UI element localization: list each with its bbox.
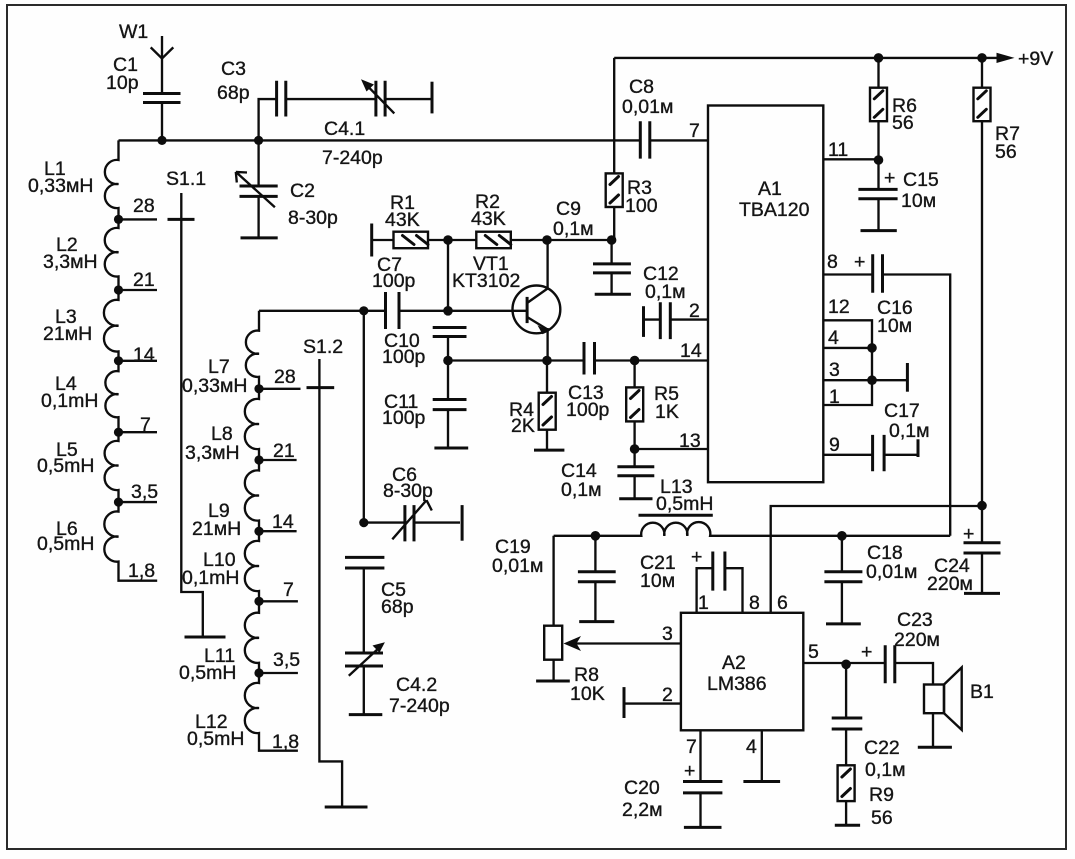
capacitor C16 (polarized) [824, 251, 951, 536]
svg-text:KT3102: KT3102 [452, 270, 520, 292]
svg-text:0,5mH: 0,5mH [179, 662, 236, 684]
svg-text:0,01м: 0,01м [622, 96, 673, 118]
svg-text:C9: C9 [556, 198, 581, 220]
tap 7 (L4/L5) [114, 414, 157, 437]
capacitor C5 [345, 557, 414, 653]
inductor chain L7-L12 [179, 311, 298, 751]
svg-text:0,5mH: 0,5mH [656, 493, 713, 515]
svg-text:9: 9 [829, 434, 840, 456]
svg-text:14: 14 [133, 344, 155, 366]
svg-text:C3: C3 [221, 58, 246, 80]
tap 28 (L1/L2) [114, 195, 157, 224]
svg-text:3: 3 [662, 623, 673, 645]
svg-text:7: 7 [140, 414, 151, 436]
capacitor C19 [492, 536, 616, 622]
svg-text:10м: 10м [877, 315, 912, 337]
svg-text:1,8: 1,8 [272, 731, 299, 753]
svg-text:8-30p: 8-30p [383, 480, 433, 502]
svg-text:1,8: 1,8 [128, 560, 155, 582]
capacitor C24 (polarized) [927, 523, 1001, 595]
capacitor C1 [106, 54, 181, 141]
svg-text:3,5: 3,5 [131, 481, 158, 503]
svg-text:0,01м: 0,01м [866, 561, 917, 583]
svg-text:43K: 43K [471, 208, 506, 230]
svg-text:3: 3 [829, 359, 840, 381]
svg-text:68p: 68p [217, 82, 250, 104]
transistor VT1 [452, 240, 560, 361]
svg-text:2,2м: 2,2м [622, 799, 663, 821]
svg-text:4: 4 [828, 327, 839, 349]
svg-text:0,1mH: 0,1mH [41, 390, 98, 412]
svg-text:21мН: 21мН [192, 518, 241, 540]
svg-text:4: 4 [746, 736, 757, 758]
svg-text:+: + [884, 167, 895, 189]
resistor R9 [835, 765, 894, 829]
antenna W1 [119, 21, 173, 93]
svg-text:0,5mH: 0,5mH [37, 533, 94, 555]
svg-text:0,5mH: 0,5mH [37, 455, 94, 477]
resistor R3 [606, 58, 658, 240]
svg-text:7: 7 [689, 120, 700, 142]
node C9/R3 junction [607, 235, 617, 245]
svg-text:28: 28 [274, 366, 296, 388]
svg-text:100: 100 [625, 195, 658, 217]
node collector junction [542, 235, 552, 245]
svg-text:C4.2: C4.2 [396, 674, 437, 696]
svg-text:100p: 100p [566, 399, 610, 421]
tap 28 (L7/L8) [254, 366, 300, 393]
wire pin 11 [824, 158, 879, 160]
wire base bias [447, 240, 449, 311]
node rail R7 [977, 53, 987, 63]
capacitor C21 (polarized) [640, 546, 743, 613]
inductor L13 [554, 476, 951, 536]
capacitor C9 [553, 198, 631, 294]
capacitor C23 (polarized) [861, 609, 940, 685]
svg-text:6: 6 [777, 592, 788, 614]
node antenna junction [157, 136, 166, 145]
wire tank2 top [259, 310, 385, 312]
capacitor C8 [622, 76, 708, 159]
svg-text:B1: B1 [970, 681, 994, 703]
svg-text:3,3мН: 3,3мН [43, 251, 98, 273]
svg-text:C8: C8 [629, 76, 654, 98]
tap 21 (L8/L9) [254, 440, 296, 465]
svg-text:0,1м: 0,1м [865, 759, 906, 781]
capacitor C7 [372, 254, 527, 329]
svg-text:C20: C20 [624, 777, 660, 799]
resistor R6 [870, 58, 917, 160]
resistor R4 [509, 361, 564, 451]
svg-text:100p: 100p [382, 346, 426, 368]
svg-text:10p: 10p [106, 72, 139, 94]
trimmer capacitor C2 [236, 140, 338, 238]
svg-text:0,1mH: 0,1mH [182, 567, 239, 589]
svg-text:C22: C22 [864, 737, 900, 759]
svg-text:56: 56 [995, 141, 1017, 163]
capacitor C15 (polarized) [858, 160, 939, 231]
node tank2 top [359, 306, 368, 315]
svg-text:7: 7 [283, 579, 294, 601]
pin 2 stub [624, 684, 681, 718]
svg-text:0,1м: 0,1м [561, 479, 602, 501]
wire pin 6 to R7 [771, 506, 982, 613]
potentiometer R8 [536, 536, 681, 705]
svg-text:56: 56 [892, 112, 914, 134]
svg-text:+: + [861, 641, 872, 663]
svg-text:12: 12 [828, 296, 850, 318]
capacitor C17 [824, 400, 930, 471]
tap 14 (L3/L4) [114, 344, 157, 366]
node C6/C5 junction [359, 518, 368, 527]
node C14 junction [630, 444, 640, 454]
capacitor C18 [824, 536, 917, 624]
resistor R2 [448, 191, 547, 248]
svg-text:13: 13 [679, 430, 701, 452]
svg-text:A1: A1 [758, 178, 782, 200]
svg-text:S1.1: S1.1 [166, 168, 206, 190]
svg-text:+: + [691, 546, 702, 568]
svg-text:10K: 10K [570, 683, 605, 705]
svg-text:2: 2 [662, 684, 673, 706]
wire pin13 [635, 448, 708, 450]
capacitor C14 [561, 449, 654, 501]
capacitor C12 [643, 263, 708, 339]
node tank1 junction [254, 136, 263, 145]
svg-text:68p: 68p [381, 596, 414, 618]
+9V rail [614, 48, 1053, 70]
node R5 top junction [630, 356, 640, 366]
svg-text:220м: 220м [927, 573, 973, 595]
svg-text:+: + [684, 760, 695, 782]
node pin5/C22 [841, 660, 851, 670]
svg-text:220м: 220м [894, 629, 940, 651]
svg-text:+: + [854, 251, 865, 273]
node R1/R2 junction [443, 235, 453, 245]
capacitor C13 [566, 342, 708, 421]
svg-text:56: 56 [871, 807, 893, 829]
svg-text:0,01м: 0,01м [492, 555, 543, 577]
variable capacitor C4.1 [286, 79, 432, 169]
svg-text:5: 5 [808, 641, 819, 663]
svg-text:LM386: LM386 [707, 673, 767, 695]
pin 4 stub [743, 730, 780, 781]
node C19 junction [591, 531, 601, 541]
svg-text:43K: 43K [385, 209, 420, 231]
tap 21 (L2/L3) [114, 269, 157, 295]
svg-text:S1.2: S1.2 [303, 336, 343, 358]
switch S1.1 [166, 168, 226, 637]
node emitter row left [443, 356, 453, 366]
wire bus A (tank1 top to C8) [119, 139, 641, 141]
node emitter junction [542, 356, 552, 366]
svg-text:+9V: +9V [1018, 48, 1053, 70]
svg-text:R9: R9 [869, 784, 894, 806]
node base junction [443, 306, 453, 316]
capacitor C11 [382, 361, 468, 449]
svg-text:1: 1 [829, 386, 840, 408]
svg-text:3,3мН: 3,3мН [185, 442, 240, 464]
node rail R6 [874, 53, 884, 63]
svg-text:7-240p: 7-240p [322, 147, 383, 169]
svg-text:28: 28 [133, 195, 155, 217]
svg-text:0,5mH: 0,5mH [187, 728, 244, 750]
tap 7 (L10/L11) [254, 579, 298, 606]
svg-text:TBA120: TBA120 [739, 199, 810, 221]
svg-text:1: 1 [698, 592, 709, 614]
node pin6/R7 junction [977, 501, 987, 511]
svg-text:C23: C23 [897, 609, 933, 631]
svg-text:100p: 100p [382, 407, 426, 429]
svg-text:0,33мН: 0,33мН [28, 175, 93, 197]
svg-text:C15: C15 [903, 169, 939, 191]
svg-text:21мН: 21мН [43, 323, 92, 345]
tap 14 (L9/L10) [254, 511, 296, 536]
wire emitter row [448, 359, 584, 361]
resistor R7 [974, 58, 1020, 542]
svg-text:8: 8 [749, 592, 760, 614]
svg-text:1K: 1K [655, 401, 679, 423]
wire collector node to C9 node [547, 239, 612, 241]
op-amp / IC A2 LM386 [681, 613, 803, 731]
capacitor C22 [832, 663, 906, 781]
node pin11/C15 [874, 155, 884, 165]
svg-text:2K: 2K [511, 415, 535, 437]
svg-text:A2: A2 [722, 652, 746, 674]
svg-text:14: 14 [680, 340, 702, 362]
svg-text:0,1м: 0,1м [889, 420, 930, 442]
capacitor C10 [382, 328, 467, 369]
svg-text:21: 21 [273, 440, 295, 462]
svg-text:C4.1: C4.1 [324, 118, 365, 140]
ground S1.2 [325, 806, 368, 809]
resistor R1 [372, 192, 448, 257]
svg-text:0,1м: 0,1м [553, 218, 594, 240]
svg-text:7-240p: 7-240p [389, 695, 450, 717]
trimmer capacitor C6 [364, 464, 462, 541]
svg-text:C17: C17 [884, 400, 920, 422]
svg-text:11: 11 [828, 139, 848, 161]
svg-text:14: 14 [272, 511, 294, 533]
svg-text:0,33мН: 0,33мН [182, 375, 247, 397]
svg-text:10м: 10м [901, 190, 936, 212]
wire tank2 cap branch [363, 311, 365, 523]
switch S1.2 [303, 336, 343, 807]
svg-text:0,1м: 0,1м [645, 281, 686, 303]
svg-text:3,5: 3,5 [273, 649, 300, 671]
svg-text:W1: W1 [119, 21, 148, 43]
tap 3,5 (L5/L6) [114, 481, 158, 507]
svg-text:+: + [963, 523, 974, 545]
resistor R5 [626, 361, 679, 450]
svg-text:2: 2 [689, 300, 700, 322]
capacitor C20 (polarized) [622, 730, 722, 827]
tap 3,5 (L11/L12) [254, 649, 300, 678]
op-amp / IC A1 TBA120 [708, 106, 823, 483]
node C18 junction [837, 531, 847, 541]
speaker B1 [918, 668, 994, 748]
inductor chain L1-L6 [28, 140, 157, 580]
pins 12/4/3/1 bus [824, 296, 908, 408]
variable capacitor C4.2 [345, 642, 450, 717]
svg-text:C2: C2 [290, 180, 315, 202]
svg-text:8-30p: 8-30p [288, 207, 338, 229]
wire pin 5 [803, 662, 885, 664]
capacitor C3 [217, 58, 286, 140]
svg-text:10м: 10м [640, 570, 675, 592]
svg-text:100p: 100p [372, 270, 416, 292]
svg-text:8: 8 [827, 251, 838, 273]
svg-text:7: 7 [686, 736, 697, 758]
svg-text:21: 21 [133, 269, 155, 291]
